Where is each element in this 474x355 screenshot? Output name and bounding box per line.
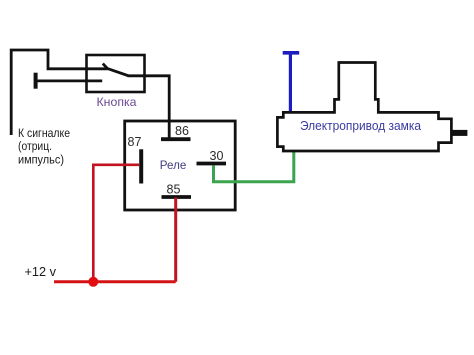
wire: switch output to relay pin 86	[128, 76, 170, 138]
relay box (Реле)	[125, 121, 236, 210]
blue terminal bar	[283, 51, 300, 55]
svg-text:Реле: Реле	[160, 158, 187, 172]
pin 86 bar	[161, 137, 191, 141]
pin 30 bar	[197, 162, 227, 166]
red wire: bottom +12v rail	[54, 280, 176, 283]
svg-text:86: 86	[175, 124, 189, 138]
terminal T-bar (blind stub)	[34, 73, 38, 89]
switch box (Кнопка)	[87, 55, 145, 92]
pin 87 bar	[139, 149, 143, 183]
actuator body (Электропривод замка)	[277, 63, 451, 152]
svg-text:импульс): импульс)	[18, 153, 64, 167]
red wire: +12v feed to pin 87	[93, 165, 139, 282]
svg-text:87: 87	[128, 135, 142, 149]
switch lever tick	[103, 64, 108, 69]
svg-text:30: 30	[210, 149, 224, 163]
svg-text:Кнопка: Кнопка	[97, 95, 137, 109]
junction dot on +12v rail	[88, 277, 98, 287]
pin 85 bar	[162, 195, 192, 199]
svg-text:85: 85	[167, 183, 181, 197]
green wire: pin 30 to actuator	[214, 151, 294, 182]
svg-text:(отриц.: (отриц.	[18, 139, 52, 153]
svg-text:+12 v: +12 v	[25, 265, 57, 279]
wire: from T-bar terminal to switch lower contact	[36, 80, 103, 83]
svg-text:Электропривод замка: Электропривод замка	[300, 119, 421, 133]
svg-text:К сигналке: К сигналке	[18, 126, 70, 140]
red wire: pin 85 down to +12v rail	[174, 198, 177, 282]
blue wire: actuator positive lead	[289, 54, 292, 113]
wire: lead to alarm (К сигналке) up-and-over to switch top contact	[11, 50, 108, 135]
switch lever	[107, 68, 128, 75]
actuator output pin (black)	[451, 130, 467, 136]
